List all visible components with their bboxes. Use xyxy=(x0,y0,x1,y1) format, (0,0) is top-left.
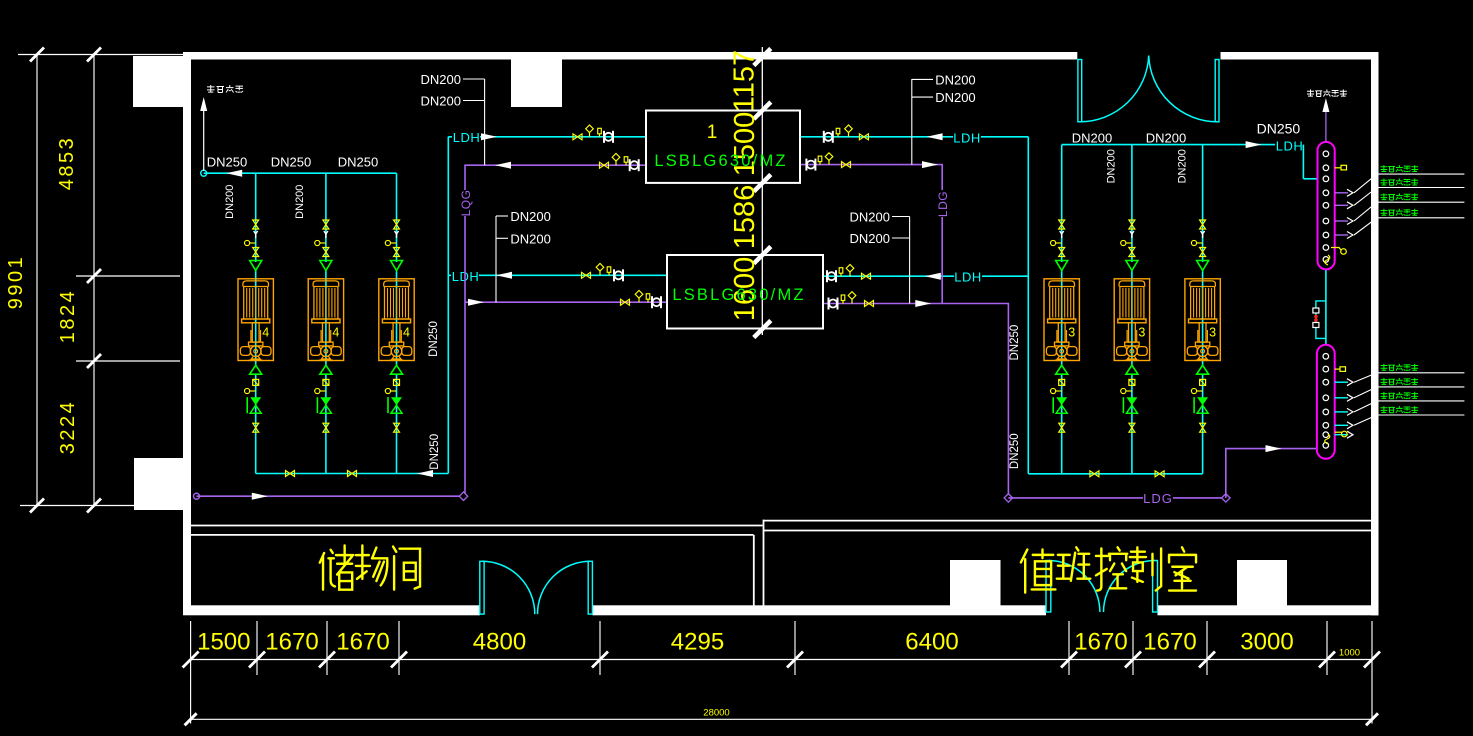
valve stack above pump P4 xyxy=(1059,220,1065,229)
room label control 4 (zhi) xyxy=(1130,547,1161,590)
svg-text:LDH: LDH xyxy=(453,130,481,145)
column C1 top-left xyxy=(133,56,183,107)
dim center vline xyxy=(761,47,763,335)
pipe pump R2 through xyxy=(1131,270,1133,366)
svg-text:DN250: DN250 xyxy=(429,434,441,470)
door control leaf right xyxy=(1153,561,1158,613)
pipe pump riser L1 xyxy=(255,173,257,262)
text LDH1 right xyxy=(953,129,981,145)
pipe suction header right xyxy=(1028,473,1202,475)
svg-text:1670: 1670 xyxy=(1143,629,1196,656)
manifold M2 stub arrows xyxy=(1347,379,1353,386)
interior wall storage room top line1 xyxy=(191,525,763,527)
arrow chiller1 right purple xyxy=(922,161,938,168)
door storage arc left xyxy=(482,561,535,614)
door top double leaf right xyxy=(1215,60,1219,122)
pump P1 unit xyxy=(238,279,273,361)
pipe pump riser L2 xyxy=(325,173,327,262)
dim overall line 28000 xyxy=(191,718,1372,720)
manifold M2 bottom fitting xyxy=(1325,434,1330,444)
pipe DN250 riser right xyxy=(1027,137,1029,474)
svg-text:LDG: LDG xyxy=(936,191,950,217)
svg-text:1824: 1824 xyxy=(57,289,79,344)
svg-text:4: 4 xyxy=(403,326,410,340)
svg-text:4853: 4853 xyxy=(56,136,78,191)
svg-text:DN200: DN200 xyxy=(224,185,236,219)
valve group chiller2 left purple xyxy=(621,299,630,305)
svg-text:DN250: DN250 xyxy=(207,154,247,169)
dim center ticks xyxy=(754,49,771,66)
pipe DN250 riser left xyxy=(447,137,449,474)
valve group chiller2 left cyan xyxy=(582,272,591,278)
room label control 2 (ban) xyxy=(1057,547,1090,580)
column C2 left lower xyxy=(134,458,186,510)
room label control 5 (shi) xyxy=(1169,547,1196,590)
dim left ticks xyxy=(30,48,44,62)
manifold M1 purple stubs xyxy=(1335,192,1348,194)
pipe LDG up to manifold2 xyxy=(1226,449,1317,498)
node diamond LDG right2 xyxy=(1222,494,1230,502)
svg-text:1500: 1500 xyxy=(197,629,250,656)
label system zone 3 upper xyxy=(1381,193,1388,200)
svg-text:DN250: DN250 xyxy=(1257,121,1301,137)
pipe pump L1 through xyxy=(255,270,257,366)
pipe LDH1 chiller1 right xyxy=(801,136,1028,138)
valve group chiller2 right purple xyxy=(865,301,874,307)
door storage leaf left xyxy=(480,561,484,614)
pipe chiller2 right purple xyxy=(823,304,1008,498)
svg-text:DN200: DN200 xyxy=(850,231,890,246)
svg-text:DN250: DN250 xyxy=(271,154,311,169)
arrow on left pump header xyxy=(226,170,242,177)
svg-text:4295: 4295 xyxy=(671,629,724,656)
label system zone 1 lower xyxy=(1381,364,1388,371)
valve bypass upper xyxy=(1313,308,1319,313)
arrow LDH1 right xyxy=(927,133,943,140)
wall top segment right of door xyxy=(1221,52,1379,60)
dim bottom ext left xyxy=(190,621,192,724)
svg-text:4800: 4800 xyxy=(473,629,526,656)
pipe pump R1 through xyxy=(1061,270,1063,366)
svg-text:DN250: DN250 xyxy=(338,154,378,169)
room label control 3 (kong) xyxy=(1096,547,1127,590)
pipe chiller2 left purple xyxy=(465,301,667,303)
manifold M1 stub arrows xyxy=(1347,189,1353,196)
pipe below pump L1 xyxy=(255,374,257,474)
svg-text:1: 1 xyxy=(707,122,718,143)
valve stack below pump P4 xyxy=(1056,365,1068,374)
label system zone 4 upper xyxy=(1381,209,1388,216)
svg-text:3000: 3000 xyxy=(1240,629,1293,656)
arrow LDH1 left xyxy=(481,133,497,140)
svg-text:DN200: DN200 xyxy=(1106,149,1118,183)
pipe right header drop to manifold xyxy=(1302,145,1304,179)
label to chilled water loop xyxy=(1307,90,1314,97)
wall bottom segment 3 xyxy=(1158,605,1379,615)
svg-text:DN200: DN200 xyxy=(1177,149,1189,183)
valve on suction header L2 xyxy=(348,471,357,477)
label to cooling tower xyxy=(207,85,215,93)
svg-text:DN200: DN200 xyxy=(294,185,306,219)
node circle LDG left end xyxy=(194,493,200,499)
svg-text:1157: 1157 xyxy=(729,50,761,112)
valve stack below pump P2 xyxy=(320,365,332,374)
svg-text:DN200: DN200 xyxy=(510,231,550,246)
pipe pump L3 through xyxy=(396,270,398,366)
pipe manifold connector xyxy=(1325,269,1327,344)
manifold M2 leader slants xyxy=(1354,373,1377,382)
door top arc right xyxy=(1149,56,1217,122)
svg-text:DN200: DN200 xyxy=(935,72,975,87)
svg-text:DN200: DN200 xyxy=(421,94,461,109)
manifold M1 bottom fitting xyxy=(1325,255,1330,265)
pipe LDG bottom left xyxy=(197,495,464,497)
door control arc left xyxy=(1048,561,1100,613)
pump P3 unit xyxy=(379,279,414,361)
arrow LDH2 right xyxy=(925,273,941,280)
svg-text:LSBLG630/MZ: LSBLG630/MZ xyxy=(672,286,805,304)
bypass red marks xyxy=(1314,315,1318,319)
valve group chiller1 right cyan xyxy=(859,134,868,140)
room label storage 2 (wu) xyxy=(356,545,387,585)
pipe pump L2 through xyxy=(325,270,327,366)
node circle cooling tower connection xyxy=(201,170,207,176)
pipe below pump R2 xyxy=(1131,374,1133,474)
text LDH right header xyxy=(1275,137,1304,153)
svg-text:3224: 3224 xyxy=(57,400,79,455)
svg-text:1000: 1000 xyxy=(1339,648,1360,659)
label system zone 2 upper xyxy=(1381,179,1388,186)
pipe pump riser L3 from header corner xyxy=(396,173,398,262)
svg-text:DN200: DN200 xyxy=(421,72,461,87)
room label storage 1 (chu) xyxy=(320,545,353,589)
pump P5 unit xyxy=(1114,279,1149,361)
svg-text:9901: 9901 xyxy=(5,255,27,310)
manifold M1 ports xyxy=(1323,151,1329,157)
valve on right suction header 1 xyxy=(1090,471,1099,477)
interior wall vertical partition right xyxy=(763,520,765,609)
pipe right pump top header xyxy=(1062,144,1304,146)
valve bypass lower xyxy=(1313,323,1319,328)
pipe pump riser R1 xyxy=(1061,145,1063,262)
pipe below pump L2 xyxy=(325,374,327,474)
dim left ext top xyxy=(18,54,183,56)
arrow on left suction header xyxy=(417,470,433,477)
arrow LDH2 left xyxy=(496,272,512,279)
valve stack above pump P6 xyxy=(1200,220,1206,229)
manifold M2 label lines xyxy=(1377,372,1465,374)
manifold M2 yellow tap xyxy=(1335,368,1340,370)
text LQG rotated xyxy=(459,190,472,216)
text LDH1 left xyxy=(452,128,480,144)
dim bottom extension lines xyxy=(256,621,258,675)
label system zone 3 lower xyxy=(1381,392,1388,399)
svg-text:1586: 1586 xyxy=(729,185,761,250)
svg-text:DN250: DN250 xyxy=(1009,433,1021,469)
svg-text:DN200: DN200 xyxy=(935,90,975,105)
dim bottom ext right xyxy=(1371,621,1373,724)
svg-text:DN200: DN200 xyxy=(1072,130,1112,145)
manifold M2 ports xyxy=(1323,354,1329,360)
valve stack above pump P3 xyxy=(394,220,400,229)
node diamond LDG left xyxy=(459,492,467,500)
dim left vline 9901 xyxy=(36,55,38,506)
dim bottom ticks xyxy=(183,652,199,668)
valve stack below pump P5 xyxy=(1126,365,1138,374)
svg-text:1670: 1670 xyxy=(265,629,318,656)
svg-text:LDH: LDH xyxy=(1276,139,1304,154)
door storage arc right xyxy=(538,561,591,614)
arrow chiller2 left purple xyxy=(468,299,484,306)
arrow LDG to manifold xyxy=(1266,445,1282,452)
room label storage 3 (jian) xyxy=(393,546,420,589)
svg-text:DN250: DN250 xyxy=(1009,325,1021,361)
door control leaf left xyxy=(1046,561,1051,613)
door top double leaf left xyxy=(1078,60,1082,122)
text LDH2 right xyxy=(954,268,982,284)
svg-text:DN200: DN200 xyxy=(1146,130,1186,145)
svg-text:LSBLG630/MZ: LSBLG630/MZ xyxy=(654,152,787,170)
door top arc left xyxy=(1080,56,1149,122)
valve group chiller1 right purple xyxy=(842,162,851,168)
wall top segment left of door xyxy=(183,52,1077,60)
node diamond LDG right1 xyxy=(1004,494,1012,502)
label system zone 1 upper xyxy=(1381,165,1388,172)
column C3 top wall xyxy=(511,59,562,107)
svg-text:6400: 6400 xyxy=(905,629,958,656)
valve group chiller1 left purple xyxy=(600,162,609,168)
valve group chiller2 right cyan xyxy=(862,273,871,279)
svg-text:DN200: DN200 xyxy=(510,209,550,224)
dim left ext 361 xyxy=(76,360,180,362)
room label control 1 (zhi) xyxy=(1021,549,1056,592)
pipe pump R3 through xyxy=(1202,270,1204,366)
svg-text:DN200: DN200 xyxy=(850,210,890,225)
pipe chiller1 right purple xyxy=(801,165,942,304)
svg-text:4: 4 xyxy=(332,326,339,340)
pipe manifold bypass loop xyxy=(1316,301,1326,339)
flow arrow to cooling tower xyxy=(203,110,205,171)
pipe LDH2 chiller2 left xyxy=(448,274,667,276)
svg-text:28000: 28000 xyxy=(703,708,729,719)
svg-text:LQG: LQG xyxy=(459,190,473,217)
text LDG rotated right xyxy=(936,190,949,217)
interior wall control room top line1 xyxy=(764,520,1372,522)
door storage leaf right xyxy=(588,561,592,614)
svg-text:3: 3 xyxy=(1138,326,1145,340)
interior wall control room top line2 xyxy=(764,530,1372,532)
wall right xyxy=(1371,52,1379,615)
valve stack below pump P6 xyxy=(1197,365,1209,374)
leader DN200 chiller1 left xyxy=(484,79,486,165)
svg-text:3: 3 xyxy=(1209,326,1216,340)
dim left ext bottom xyxy=(20,505,180,507)
manifold M1 capsule xyxy=(1318,142,1335,270)
valve stack above pump P2 xyxy=(323,220,329,229)
valve on suction header L1 xyxy=(286,471,295,477)
svg-text:DN250: DN250 xyxy=(428,321,440,357)
wall bottom segment 2 xyxy=(592,605,1046,615)
pump P4 unit xyxy=(1044,279,1079,361)
leader DN200 chiller1 right xyxy=(911,79,913,165)
arrow chiller2 right purple xyxy=(915,300,931,307)
valve stack below pump P1 xyxy=(250,365,262,374)
interior wall vertical partition left xyxy=(753,535,755,609)
pipe below pump R1 xyxy=(1061,374,1063,474)
valve stack above pump P1 xyxy=(253,220,259,229)
valve group chiller1 left cyan xyxy=(573,134,582,140)
manifold M2 capsule xyxy=(1317,345,1335,459)
label system zone 2 lower xyxy=(1381,378,1388,385)
pipe below pump R3 xyxy=(1202,374,1204,474)
manifold M1 drain gauge xyxy=(1331,248,1341,251)
wall bottom segment 1 xyxy=(183,605,480,615)
arrow chiller1 left purple xyxy=(495,162,511,169)
leader DN200 chiller2 left xyxy=(495,216,497,302)
svg-text:LDG: LDG xyxy=(1143,491,1173,506)
arrow right pump header xyxy=(1246,141,1262,148)
svg-text:1670: 1670 xyxy=(1074,629,1127,656)
manifold M1 arrow up xyxy=(1325,112,1327,142)
manifold M1 leader slants xyxy=(1354,174,1377,193)
text LDH2 left xyxy=(451,267,479,283)
dim left vline sub xyxy=(93,55,95,506)
svg-text:1670: 1670 xyxy=(336,629,389,656)
arrow LDG left xyxy=(252,493,268,500)
leader DN200 chiller2 right xyxy=(909,217,911,304)
pipe LQG chiller1 left purple xyxy=(465,165,645,496)
pipe suction header left xyxy=(256,473,449,475)
pump P2 unit xyxy=(308,279,343,361)
chiller U1 box xyxy=(646,111,800,183)
pipe LDH supply header left pumps xyxy=(204,172,397,174)
pipe pump riser R3 xyxy=(1202,145,1204,262)
column C5 bottom wall right xyxy=(1237,560,1287,608)
wall left xyxy=(183,52,191,614)
manifold M1 yellow tap xyxy=(1335,167,1341,169)
door control arc right xyxy=(1104,561,1156,613)
svg-text:LDH: LDH xyxy=(953,131,981,146)
svg-text:LDH: LDH xyxy=(954,270,982,285)
svg-text:3: 3 xyxy=(1068,326,1075,340)
pipe LDH2 chiller2 right xyxy=(823,275,1028,277)
pipe below pump L3 xyxy=(396,374,398,474)
column C4 bottom wall xyxy=(950,560,1001,606)
chiller U2 box xyxy=(667,255,823,329)
pipe LDG bottom right xyxy=(1008,497,1225,499)
manifold M1 label lines xyxy=(1377,173,1465,175)
valve stack below pump P3 xyxy=(391,365,403,374)
pipe LDH1 chiller1 left xyxy=(448,136,645,138)
pump P6 unit xyxy=(1185,279,1220,361)
pipe pump riser R2 xyxy=(1131,145,1133,262)
manifold M2 cyan stubs xyxy=(1335,381,1348,383)
text LDG xyxy=(1143,490,1173,505)
valve stack above pump P5 xyxy=(1129,220,1135,229)
label system zone 4 lower xyxy=(1381,406,1388,413)
dim left ext 276 xyxy=(76,275,180,277)
manifold M2 drain gauge xyxy=(1335,431,1342,433)
valve on right suction header 2 xyxy=(1155,471,1164,477)
dim bottom line xyxy=(191,659,1372,661)
interior wall storage room top line2 xyxy=(191,534,754,536)
svg-text:4: 4 xyxy=(262,326,269,340)
